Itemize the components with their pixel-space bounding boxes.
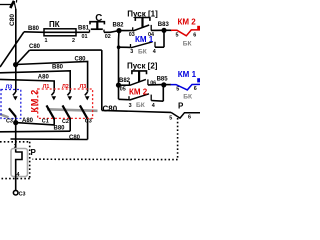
- svg-text:КМ 2: КМ 2: [29, 89, 39, 112]
- start2 T-bar: [132, 71, 147, 74]
- wire branch2 left corner: [119, 98, 130, 100]
- heater body gray box: [11, 149, 28, 177]
- terminal C3 circle: [13, 190, 18, 195]
- wire B80 diagonal from left edge: [0, 32, 24, 67]
- svg-text:B80: B80: [54, 125, 66, 131]
- svg-text:5: 5: [176, 86, 179, 92]
- dotted linkage heater top: [0, 141, 30, 143]
- svg-text:A80: A80: [38, 75, 50, 81]
- svg-text:03: 03: [129, 32, 135, 38]
- main contact KM2 pole (col3): [63, 92, 73, 131]
- stop button С bridge: [91, 28, 103, 30]
- bus B80: [0, 71, 70, 92]
- wire C80 bottom: [11, 138, 88, 141]
- start2 blade: [129, 79, 146, 85]
- wire start1 to B83: [151, 29, 164, 31]
- svg-text:B82: B82: [113, 23, 125, 29]
- svg-text:5: 5: [176, 33, 179, 39]
- start2 stem: [138, 71, 140, 81]
- wire B81: [76, 31, 90, 33]
- KM2 aux right tick: [150, 95, 152, 101]
- red edge fragment: [197, 26, 200, 30]
- svg-text:3: 3: [129, 103, 132, 109]
- breaker fixed-side lead: [14, 1, 16, 9]
- svg-text:C80: C80: [69, 135, 81, 141]
- node col1 bottom dot: [13, 120, 18, 125]
- heater meander: [16, 152, 22, 177]
- wire C80 return: [102, 110, 171, 112]
- svg-text:С3: С3: [19, 192, 26, 198]
- contact KM1 aux: left tick: [130, 44, 132, 47]
- dotted linkage heater riser: [29, 142, 31, 179]
- svg-text:КМ 1: КМ 1: [178, 70, 197, 79]
- svg-text:БК: БК: [183, 93, 193, 100]
- wire B82 to start1: [119, 30, 133, 32]
- wire B83 to KM2 NC: [164, 29, 172, 31]
- wire C80 control branch: [30, 49, 102, 51]
- wire branch2 riser to B85: [162, 85, 164, 102]
- contact KM1 NC (blue) blade: [171, 84, 201, 90]
- stop button С: contact ticks: [89, 30, 91, 33]
- wire C80 control drop: [101, 50, 103, 110]
- svg-text:4: 4: [152, 103, 155, 109]
- svg-text:05: 05: [120, 86, 126, 92]
- svg-text:C80: C80: [29, 44, 41, 50]
- svg-text:4: 4: [153, 49, 156, 55]
- svg-text:Пуск [1]: Пуск [1]: [127, 10, 158, 19]
- KM1 aux right tick: [154, 42, 156, 47]
- svg-text:Р: Р: [178, 102, 184, 111]
- svg-text:01: 01: [82, 34, 88, 40]
- svg-text:3: 3: [130, 49, 133, 55]
- wire start2 to B85: [148, 84, 163, 86]
- start button Пуск [1]: left tick: [132, 27, 134, 30]
- contact P thermal NC: [171, 112, 200, 118]
- dotted linkage bottom left: [0, 178, 30, 180]
- start button Пуск [2]: left tick: [128, 82, 130, 85]
- svg-text:B85: B85: [157, 76, 169, 82]
- svg-text:С2: С2: [62, 119, 69, 125]
- bus C80 top: [16, 61, 88, 91]
- wire diagonal to C80 branch: [16, 50, 30, 65]
- svg-text:Пуск [2]: Пуск [2]: [127, 62, 158, 71]
- contact KM2 aux: left tick: [128, 96, 130, 99]
- svg-text:6: 6: [194, 86, 197, 92]
- svg-text:1: 1: [45, 38, 48, 44]
- wire branch1 right: [155, 46, 164, 48]
- svg-text:ПК: ПК: [49, 20, 60, 29]
- blue edge fragment: [197, 78, 200, 82]
- svg-text:02: 02: [105, 34, 111, 40]
- breaker QF blade: [10, 1, 14, 8]
- wire 02 to B82: [104, 31, 119, 33]
- svg-text:B81: B81: [78, 26, 90, 32]
- node B83 dot: [161, 28, 166, 33]
- dotted linkage P horizontal: [33, 158, 178, 160]
- node branch1 T dot: [117, 45, 121, 49]
- wire branch1 left: [119, 46, 131, 48]
- KM1 aux blade: [131, 42, 153, 48]
- main contact KM1 pole (col1): [9, 92, 18, 123]
- dashed box KM1 blue: [1, 90, 21, 119]
- svg-text:КМ 2: КМ 2: [129, 87, 148, 96]
- KM2 aux blade: [129, 94, 149, 100]
- gray mech bar KM2: [47, 109, 98, 111]
- svg-text:6: 6: [193, 33, 196, 39]
- svg-text:6: 6: [188, 115, 191, 121]
- wire C80 riser: [15, 9, 17, 92]
- svg-text:С1: С1: [42, 119, 49, 125]
- svg-text:КМ 2: КМ 2: [178, 17, 197, 26]
- wire branch1 riser to B83: [163, 30, 165, 47]
- fuse ПК body: [44, 29, 76, 36]
- start1 T-bar: [135, 18, 150, 21]
- svg-text:B83: B83: [158, 22, 170, 28]
- svg-text:С: С: [95, 13, 102, 24]
- svg-text:4: 4: [17, 172, 20, 178]
- node B85 dot: [161, 82, 166, 87]
- svg-text:B80: B80: [52, 64, 64, 70]
- wire branch2 right: [151, 100, 163, 103]
- svg-text:C80: C80: [9, 14, 16, 26]
- fuse through-wire: [44, 31, 76, 33]
- start1 stem: [141, 18, 143, 28]
- stop button С stem: [96, 22, 98, 29]
- svg-text:БК: БК: [138, 49, 148, 56]
- svg-text:С3: С3: [85, 118, 92, 124]
- node B82 dot: [116, 28, 121, 33]
- wire B80 bottom: [0, 130, 70, 133]
- wire B85 to KM1 NC: [163, 84, 171, 86]
- svg-text:A80: A80: [22, 118, 34, 124]
- wire B82 riser down: [118, 31, 121, 100]
- wire heater riser: [15, 123, 17, 153]
- svg-text:БК: БК: [136, 102, 146, 109]
- main contact KM2 pole (col2): [47, 92, 57, 125]
- wire heater to C3: [15, 177, 17, 191]
- dotted linkage P riser: [177, 118, 179, 160]
- node B82 rung2 dot: [116, 83, 121, 88]
- wire incoming top-left: [0, 4, 11, 6]
- svg-text:B80: B80: [28, 26, 40, 32]
- svg-text:C80: C80: [103, 104, 118, 113]
- wire rung2 left: [119, 84, 130, 86]
- contact KM2 NC (red) blade: [171, 30, 200, 36]
- svg-text:КМ 1: КМ 1: [135, 35, 154, 44]
- start1 right fixed tick: [150, 25, 152, 31]
- svg-text:С3: С3: [6, 118, 13, 124]
- start1 blade: [133, 25, 150, 31]
- bus A80: [0, 79, 54, 91]
- svg-text:2: 2: [72, 38, 75, 44]
- svg-text:5: 5: [169, 115, 172, 121]
- main contact KM2 pole (col4): [80, 92, 90, 140]
- svg-text:Р: Р: [31, 148, 37, 157]
- svg-text:БК: БК: [183, 41, 193, 48]
- wire B80 to fuse: [24, 31, 44, 34]
- gray mech bar KM1: [0, 114, 9, 117]
- svg-text:C80: C80: [75, 57, 87, 63]
- stop button С T-bar: [90, 22, 104, 25]
- start2 right fixed tick: [147, 79, 149, 85]
- dashed box KM2 red: [38, 89, 93, 118]
- wire A80 bottom: [16, 123, 55, 125]
- node C80 junction dot: [13, 62, 18, 67]
